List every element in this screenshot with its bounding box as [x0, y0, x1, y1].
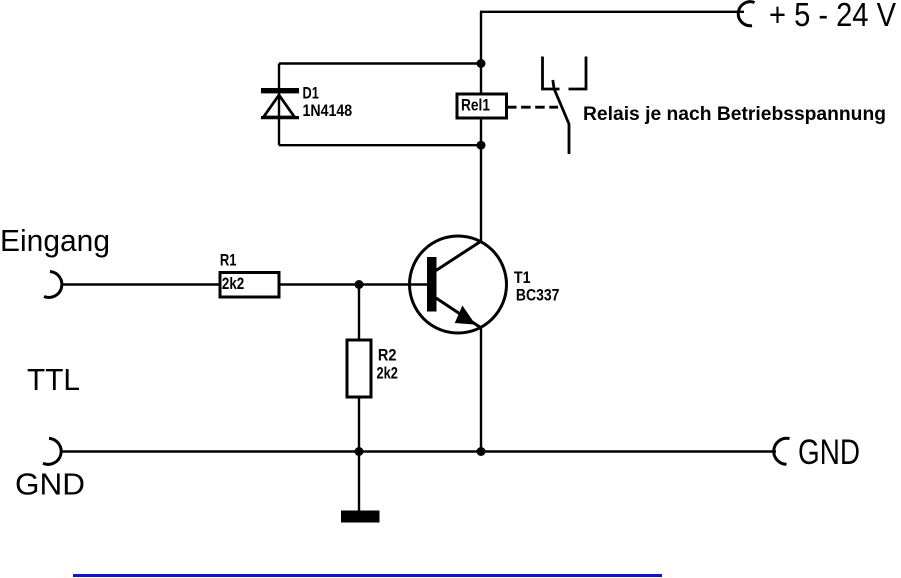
wire node to R2 top	[358, 285, 360, 340]
transistor T1 base bar	[427, 257, 437, 312]
transistor T1 collector lead	[436, 242, 481, 271]
relay contact left fixed terminal	[543, 57, 560, 90]
wire loop top	[279, 62, 481, 64]
resistor R1 box	[220, 273, 279, 298]
resistor R2 box	[347, 340, 371, 397]
svg-text:R1: R1	[220, 251, 237, 270]
transistor T1 emitter lead	[436, 298, 481, 328]
svg-text:TTL: TTL	[27, 362, 80, 397]
wire loop bottom	[279, 144, 481, 146]
diode D1 anode base line	[261, 116, 299, 119]
svg-text:R2: R2	[378, 346, 397, 365]
connector GND left arc	[43, 438, 61, 464]
svg-text:2k2: 2k2	[377, 363, 398, 382]
junction dot R2 GND node	[355, 447, 364, 456]
connector GND right arc	[774, 438, 790, 464]
wire main vertical lower (emitter down to GND rail)	[480, 328, 482, 452]
wire R1 to base	[280, 283, 428, 285]
wire GND rail horizontal	[61, 450, 776, 452]
svg-text:+ 5 - 24 V: + 5 - 24 V	[769, 0, 896, 33]
horizontal rule blue	[73, 574, 662, 577]
junction dot emitter GND node	[477, 447, 486, 456]
dashed link relay to contact	[507, 106, 558, 109]
wire top horizontal to +V connector	[480, 11, 744, 13]
svg-text:GND: GND	[798, 433, 860, 472]
wire input to R1	[61, 283, 219, 285]
relay contact right fixed terminal	[569, 57, 587, 90]
transistor T1 emitter arrow	[456, 307, 475, 325]
junction dot loop top	[477, 59, 486, 68]
junction dot loop bottom	[477, 141, 486, 150]
connector input arc	[44, 272, 62, 298]
svg-text:Rel1: Rel1	[461, 95, 490, 114]
diode D1 cathode bar	[261, 88, 299, 93]
wire GND rail to ground symbol	[358, 452, 360, 513]
wire R2 bottom to GND rail	[358, 398, 360, 452]
svg-text:D1: D1	[303, 84, 319, 103]
wire loop left vertical through diode	[278, 64, 280, 146]
svg-text:Relais je nach Betriebsspannun: Relais je nach Betriebsspannung	[583, 104, 886, 125]
svg-text:1N4148: 1N4148	[303, 101, 353, 120]
svg-text:Eingang: Eingang	[0, 223, 110, 258]
diode D1 triangle	[264, 95, 295, 117]
transistor T1 circle	[410, 236, 507, 333]
svg-text:GND: GND	[15, 467, 85, 502]
connector +V arc	[738, 2, 754, 26]
svg-text:T1: T1	[514, 268, 531, 287]
junction dot base node	[355, 280, 364, 289]
relay contact lever	[553, 80, 569, 154]
svg-text:2k2: 2k2	[222, 274, 244, 293]
svg-text:BC337: BC337	[516, 286, 560, 305]
ground symbol	[341, 511, 380, 523]
relay coil Rel1 box	[457, 94, 507, 118]
wire main vertical upper (V+ down to collector)	[480, 12, 482, 242]
